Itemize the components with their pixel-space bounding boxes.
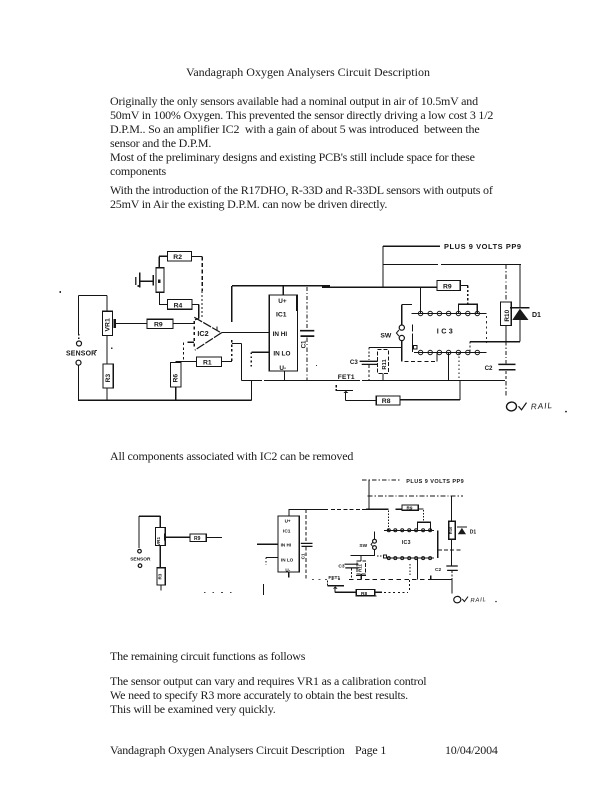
wire C3 SW net (369, 347, 402, 349)
wire IC2 supply drop (231, 286, 233, 362)
diode D1 (small) (457, 527, 477, 535)
svg-text:R8: R8 (382, 398, 391, 405)
resistor R3 (small) (157, 568, 165, 591)
node 0V RAIL annotation (small) (452, 580, 497, 605)
meter IC1 (269, 295, 297, 372)
wire left 0V rail (small) (204, 584, 264, 595)
svg-text:IC1: IC1 (283, 529, 291, 535)
svg-text:U+: U+ (285, 518, 291, 523)
resistor R10 (small) (448, 496, 455, 563)
resistor R11 (small) (356, 556, 366, 580)
resistor R1 (feedback) (176, 357, 232, 367)
capacitor C2 (small) (435, 563, 458, 580)
svg-text:C3: C3 (350, 359, 358, 366)
capacitor C1 (small) (300, 510, 312, 580)
svg-text:IN HI: IN HI (273, 331, 288, 338)
wire mid 0V rail (241, 380, 505, 382)
svg-text:C1: C1 (300, 553, 305, 559)
potentiometer VR1 (102, 295, 147, 364)
wire FET to R8 (345, 399, 376, 401)
wire non-inverting input drop (183, 343, 185, 362)
svg-text:FET1: FET1 (338, 374, 355, 381)
transistor TR1 (preset) (136, 268, 164, 293)
wire rail to IC3 pin1 (small) (388, 511, 390, 531)
svg-text:R10: R10 (448, 526, 453, 534)
svg-text:C2: C2 (485, 365, 493, 372)
resistor R9 supply (small) (402, 505, 424, 522)
wire IC3 bottom to rail (449, 353, 459, 381)
resistor R8 (small) (355, 580, 409, 597)
svg-text:U+: U+ (278, 298, 287, 305)
wire IN LO (251, 352, 269, 367)
speck (60, 285, 318, 366)
svg-text:VR1: VR1 (104, 318, 111, 331)
svg-text:R6: R6 (172, 374, 179, 383)
capacitor C2 (485, 342, 516, 381)
svg-text:R11: R11 (382, 359, 388, 370)
wire left 0V rail (78, 381, 252, 401)
node PLUS 9 VOLTS PP9 label (444, 242, 522, 251)
wire IC1 U+ drop (282, 286, 284, 295)
svg-text:R9: R9 (154, 322, 163, 329)
svg-text:D1: D1 (470, 529, 477, 535)
wire IN LO (small) (266, 558, 278, 566)
svg-text:C3: C3 (338, 564, 344, 570)
svg-text:R3: R3 (158, 573, 163, 579)
svg-text:IC2: IC2 (197, 329, 208, 338)
resistor R10 (501, 265, 512, 342)
wire IC3 bottom drops (small) (410, 558, 417, 580)
meter IC1 (small) (278, 516, 299, 572)
transistor FET1 (small) (328, 575, 344, 592)
transistor FET1 (336, 374, 355, 400)
svg-text:U-: U- (279, 365, 286, 372)
node SENSOR (66, 295, 96, 400)
resistor R3 (103, 364, 113, 400)
svg-text:C1: C1 (301, 340, 308, 348)
svg-text:IN LO: IN LO (281, 557, 294, 562)
svg-text:IC1: IC1 (276, 312, 287, 319)
svg-text:SENSOR: SENSOR (66, 350, 96, 357)
node SENSOR (small) (130, 516, 151, 567)
wire IC1 U- drop (284, 371, 286, 381)
IC3 bottom pin row (414, 346, 487, 355)
IC3 top pin row (small) (384, 529, 434, 532)
svg-text:VR1: VR1 (156, 536, 161, 545)
wire rail to IC3 pin1 (420, 287, 422, 313)
node 0V RAIL annotation (506, 381, 567, 413)
wire sensor top (79, 294, 107, 296)
wire IC3 pin link hat (458, 304, 477, 313)
capacitor C3 (350, 348, 378, 381)
wire IC3 pin link hat (small) (417, 522, 430, 530)
wire +9V to label (small) (362, 479, 401, 481)
capacitor C3 (small) (338, 564, 358, 580)
wire +9V drop (small) (368, 480, 370, 496)
switch SW (small) (359, 532, 383, 557)
svg-text:R3: R3 (105, 374, 112, 383)
svg-text:R11: R11 (357, 564, 362, 572)
svg-text:R10: R10 (504, 309, 511, 321)
svg-text:IN LO: IN LO (273, 350, 290, 357)
svg-text:SW: SW (359, 543, 367, 549)
wire mid 0V rail (small) (312, 575, 452, 579)
svg-text:C2: C2 (435, 567, 441, 573)
svg-text:R4: R4 (174, 302, 183, 309)
resistor R11 (378, 350, 389, 381)
wire +9V rail lower (small) (289, 496, 402, 510)
wire IC3 to reference (470, 342, 520, 353)
svg-text:IC3: IC3 (402, 540, 411, 546)
svg-text:PLUS 9 VOLTS PP9: PLUS 9 VOLTS PP9 (406, 479, 464, 485)
resistor R9 (small) (190, 534, 222, 542)
resistor R9 (supply) (437, 281, 468, 305)
svg-text:D1: D1 (532, 312, 541, 319)
svg-text:R9: R9 (443, 283, 452, 290)
svg-text:IN HI: IN HI (281, 543, 291, 548)
wire IC2 output to IN HI (221, 332, 269, 334)
resistor R9 (input) (147, 319, 194, 328)
diode D1 (510, 265, 541, 342)
svg-text:SENSOR: SENSOR (130, 556, 151, 562)
potentiometer VR1 (small) (155, 516, 190, 568)
wire C3 SW net (small) (351, 555, 375, 557)
wire +9V rail upper (small) (368, 495, 463, 497)
IC3 body (small) (402, 530, 438, 558)
wire IC1 U- drop (small) (288, 572, 290, 578)
node PLUS 9 VOLTS PP9 label (small) (406, 479, 464, 485)
wire +9V rail lower (232, 286, 437, 288)
svg-text:R9: R9 (194, 536, 201, 542)
wire IN LO return corner (232, 343, 242, 380)
resistor R4 (160, 292, 199, 320)
switch SW (380, 305, 437, 362)
svg-text:IC3: IC3 (437, 327, 455, 336)
svg-text:RAIL: RAIL (531, 401, 554, 412)
IC3 bottom pin row (small) (384, 555, 435, 560)
svg-text:R2: R2 (173, 254, 182, 261)
wire IC1 U+ drop (small) (288, 510, 290, 516)
svg-text:PLUS 9 VOLTS PP9: PLUS 9 VOLTS PP9 (444, 242, 522, 251)
svg-text:RAIL: RAIL (470, 597, 487, 604)
wire +9V drop (382, 246, 384, 286)
wire R9 to IN HI (small) (257, 543, 278, 545)
resistor R6 (171, 362, 182, 400)
wire R2 to IC2 inverting input (201, 257, 203, 317)
resistor R2 (159, 252, 202, 268)
svg-text:SW: SW (380, 332, 392, 339)
svg-text:R1: R1 (203, 360, 212, 367)
capacitor C1 (300, 287, 314, 381)
svg-text:R9: R9 (407, 506, 413, 511)
resistor R8 (376, 381, 460, 406)
wire +9V to label (383, 245, 440, 247)
IC3 top pin row (412, 311, 487, 315)
wire FET to R8 (small) (335, 591, 356, 593)
wire +9V rail upper (383, 264, 521, 266)
op-amp IC2 (188, 317, 222, 350)
IC3 body (413, 316, 487, 352)
svg-text:U-: U- (285, 567, 290, 572)
wire sensor top (small) (139, 515, 160, 517)
wire IC3 to reference (small) (438, 549, 463, 551)
